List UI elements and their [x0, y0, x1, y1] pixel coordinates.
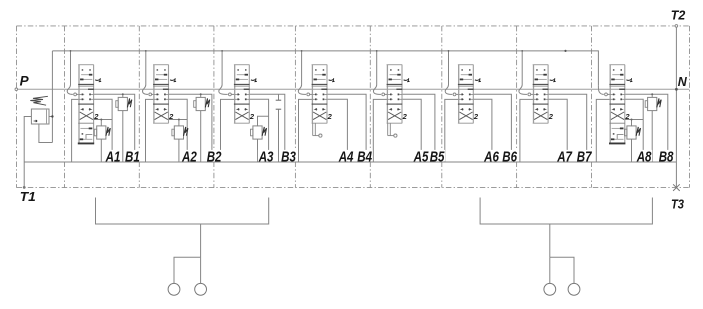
port N	[675, 88, 678, 91]
spool crossed position V8	[611, 108, 624, 119]
wire left return section 3	[221, 99, 235, 162]
wire work line B2	[169, 94, 212, 162]
spool float position V1	[80, 128, 93, 141]
spool drain vent section 4	[313, 123, 322, 137]
spool neutral ports V4	[312, 89, 327, 101]
spool position 1 symbols V6	[460, 69, 472, 80]
directional spool valve V3	[234, 65, 250, 124]
wire relief drain B2	[200, 111, 202, 162]
svg-text:A2: A2	[181, 148, 197, 165]
svg-text:A3: A3	[258, 148, 274, 165]
spool neutral ports V6	[459, 89, 474, 101]
spool crossed position V3	[235, 108, 248, 119]
label A4	[338, 150, 354, 161]
orifice node section 2	[149, 93, 152, 96]
wire work line A8	[625, 99, 643, 162]
orifice node section 3	[229, 93, 232, 96]
label A6	[483, 150, 499, 161]
wire work line A7	[548, 99, 567, 162]
orifice node section 4	[307, 93, 310, 96]
wire P drop to relief	[51, 51, 53, 143]
joystick linkage bracket left	[96, 198, 269, 284]
section divider 4	[294, 26, 296, 188]
spool position 1 symbols V4	[314, 69, 326, 80]
wire work line A5	[402, 99, 421, 162]
label B4	[357, 150, 373, 161]
spool crossed position V4	[313, 108, 326, 119]
svg-text:B1: B1	[125, 148, 140, 165]
svg-text:B8: B8	[659, 148, 674, 165]
label A1	[105, 150, 121, 161]
position label 1 V3	[251, 79, 256, 82]
port T2	[675, 25, 678, 28]
wire bypass drop section 5	[373, 51, 381, 95]
joystick knob L1	[168, 283, 180, 295]
joystick knob R2	[568, 283, 580, 295]
wire relief header A1	[94, 119, 113, 121]
directional spool valve V5	[387, 65, 403, 124]
wire work line B1	[94, 94, 135, 162]
port relief valve B2	[194, 93, 210, 110]
junction on bypass rail	[564, 50, 566, 52]
label B6	[502, 150, 518, 161]
svg-text:2: 2	[402, 112, 408, 121]
wire work line B6	[473, 94, 511, 162]
svg-text:A5: A5	[413, 148, 429, 165]
wire left return section 8	[596, 99, 610, 162]
svg-text:B6: B6	[502, 148, 517, 165]
spool crossed position V1	[80, 108, 93, 119]
port T3 (plugged)	[673, 184, 680, 191]
port P	[15, 88, 18, 91]
wire relief header A3	[258, 116, 269, 126]
orifice node section 8	[605, 93, 608, 96]
label A7	[556, 150, 572, 161]
position label 1 V7	[550, 79, 555, 82]
wire bypass drop section 2	[143, 51, 149, 95]
wire left return section 5	[373, 99, 387, 162]
position label 1 V5	[404, 79, 409, 82]
section divider 3	[213, 26, 215, 188]
spool neutral ports V3	[235, 89, 250, 101]
spool position 1 symbols V2	[155, 69, 167, 80]
wire work line B3	[249, 94, 284, 162]
wire relief drain A8	[631, 139, 633, 162]
wire left return section 6	[445, 99, 459, 162]
position label 1 V2	[170, 79, 175, 82]
plugged port B3	[276, 94, 282, 162]
wire work line A3	[249, 99, 268, 162]
spool neutral ports V7	[534, 89, 549, 101]
wire tank bottom rail	[24, 161, 676, 163]
port relief valve A2	[172, 126, 188, 139]
wire work line B4	[327, 94, 366, 162]
svg-text:B3: B3	[281, 148, 296, 165]
label A2	[181, 150, 197, 161]
spool position 1 symbols V7	[535, 69, 547, 80]
orifice node section 5	[382, 93, 385, 96]
section divider 1	[64, 26, 66, 188]
directional spool valve V7	[533, 65, 549, 124]
wire bypass drop section 4	[298, 51, 306, 95]
spool crossed position V2	[155, 108, 168, 119]
main relief valve RV0	[30, 96, 49, 124]
svg-text:A8: A8	[636, 148, 652, 165]
section divider 6	[441, 26, 443, 188]
wire work line B8	[625, 94, 668, 162]
label B1	[124, 150, 140, 161]
position label 1 V1	[95, 79, 100, 82]
spool position 1 symbols V1	[80, 69, 92, 80]
spool crossed position V6	[459, 108, 472, 119]
svg-text:2: 2	[327, 112, 333, 121]
svg-text:A6: A6	[483, 148, 499, 165]
svg-text:2: 2	[249, 112, 255, 121]
wire work line B7	[548, 94, 587, 162]
svg-text:B2: B2	[207, 148, 222, 165]
svg-text:T3: T3	[671, 197, 685, 212]
spool crossed position V5	[388, 108, 401, 119]
wire P pressure rail	[17, 88, 689, 90]
spool neutral ports V1	[79, 89, 94, 101]
spool drain vent section 5	[388, 123, 397, 137]
wire left return section 4	[299, 99, 313, 162]
spool neutral ports V2	[154, 89, 169, 101]
spool position 1 symbols V5	[389, 69, 401, 80]
svg-text:B7: B7	[577, 148, 592, 165]
port relief valve B8	[645, 93, 661, 110]
directional spool valve V8	[609, 65, 625, 144]
wire relief drain A1	[100, 139, 102, 162]
label B2	[206, 150, 222, 161]
spool neutral ports V5	[387, 89, 402, 101]
wire relief outlet U	[39, 124, 53, 143]
spool position 1 symbols V3	[236, 69, 248, 80]
label B7	[576, 150, 592, 161]
wire bypass drop section 6	[445, 51, 452, 95]
label B3	[280, 150, 296, 161]
svg-text:T1: T1	[20, 189, 36, 204]
wire left return section 2	[146, 99, 154, 162]
joystick knob R1	[544, 283, 556, 295]
port relief valve B1	[116, 93, 132, 110]
wire T2-T3 tank line	[675, 26, 677, 188]
directional spool valve V4	[312, 65, 328, 124]
label B5	[429, 150, 445, 161]
valve block outline (phantom border)	[17, 26, 690, 188]
directional spool valve V6	[458, 65, 474, 124]
svg-text:A4: A4	[338, 148, 354, 165]
section divider 2	[138, 26, 140, 188]
wire relief drain to T1	[24, 117, 31, 188]
orifice node section 1	[74, 93, 77, 96]
svg-text:B4: B4	[357, 148, 372, 165]
wire relief header A8	[625, 119, 643, 121]
wire bypass drop section 7	[519, 51, 527, 95]
spool crossed position V7	[534, 108, 547, 119]
label A5	[413, 150, 429, 161]
svg-text:2: 2	[548, 112, 554, 121]
port relief valve A3	[251, 126, 267, 139]
wire work line A6	[473, 99, 492, 162]
label A3	[258, 150, 274, 161]
orifice node section 6	[453, 93, 456, 96]
port relief valve A8	[625, 126, 641, 139]
directional spool valve V1	[78, 65, 94, 144]
wire relief drain A2	[178, 139, 180, 162]
section divider 8	[591, 26, 593, 188]
section divider 7	[516, 26, 518, 188]
spool position 1 symbols V8	[611, 69, 623, 80]
wire bypass drop section 3	[219, 51, 228, 95]
joystick linkage bracket right	[480, 198, 652, 284]
svg-text:B5: B5	[430, 148, 445, 165]
port relief valve A1	[94, 126, 110, 139]
wire relief drain A3	[257, 139, 259, 162]
node T1	[23, 186, 26, 189]
directional spool valve V2	[153, 65, 169, 124]
svg-text:P: P	[20, 74, 30, 89]
wire work line A2	[169, 99, 188, 162]
spool neutral ports V8	[610, 89, 625, 101]
spool float position V8	[611, 128, 624, 141]
wire relief drain B8	[651, 111, 653, 162]
svg-text:A7: A7	[556, 148, 572, 165]
svg-text:2: 2	[473, 112, 479, 121]
orifice node section 7	[528, 93, 531, 96]
svg-text:N: N	[678, 75, 688, 89]
position label 1 V4	[329, 79, 334, 82]
svg-text:A1: A1	[105, 148, 121, 165]
wire left return section 1	[72, 99, 79, 162]
svg-text:T2: T2	[671, 8, 686, 23]
label A8	[636, 150, 652, 161]
section divider 5	[369, 26, 371, 188]
wire work line B5	[402, 94, 435, 162]
wire work line A1	[94, 99, 113, 162]
wire work line A4	[327, 99, 347, 162]
position label 1 V8	[626, 79, 631, 82]
wire relief drain B1	[122, 111, 124, 162]
wire left return section 7	[520, 99, 534, 162]
wire bypass drop section 1	[67, 51, 73, 95]
wire relief header A2	[169, 119, 188, 121]
wire bypass drop section 8	[598, 86, 603, 95]
joystick knob L2	[195, 283, 207, 295]
wire bypass top rail	[52, 51, 598, 86]
position label 1 V6	[475, 79, 480, 82]
label B8	[658, 150, 674, 161]
main relief valve inlet stub	[49, 116, 52, 118]
